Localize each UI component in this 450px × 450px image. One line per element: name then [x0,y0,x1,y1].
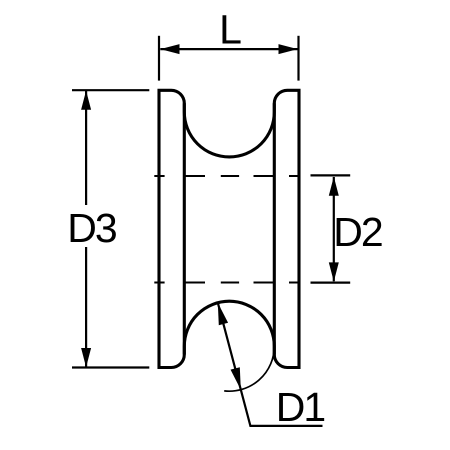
dimension D3 line lower segment [85,247,87,367]
dimension D1 arrowhead lower [231,367,241,390]
centerline lower (D2 level) [154,282,298,284]
svg-text:D1: D1 [276,384,325,430]
dimension L arrowhead right [279,44,298,54]
svg-text:L: L [219,7,242,53]
dimension D2 extension line top [311,174,351,176]
centerline upper (D2 level) [154,175,298,177]
dimension D3 extension line bottom [72,366,149,368]
dimension L arrowhead left [160,44,179,54]
dimension D3 line upper segment [85,91,87,205]
dimension D2 arrowhead up [329,177,339,196]
dimension D3 arrowhead down [81,348,91,367]
dimension L extension line right [297,36,299,81]
svg-text:D2: D2 [333,209,382,255]
dimension L line [160,48,297,50]
right flange inner edge line [273,103,276,354]
dimension L extension line left [158,36,160,81]
dimension D2 line [333,177,335,281]
groove rope circle D1 (thin completing arc) [224,346,274,391]
dimension D1 arrowhead upper [218,303,228,326]
svg-text:D3: D3 [67,205,116,251]
dimension D2 arrowhead down [329,262,339,281]
dimension D3 extension line top [72,89,149,91]
left flange inner edge line [183,103,186,354]
dimension D1 diameter line with leader [218,303,323,426]
dimension D3 arrowhead up [81,91,91,110]
pulley sheave cross-section outline [159,90,299,367]
dimension D2 extension line bottom [311,282,351,284]
